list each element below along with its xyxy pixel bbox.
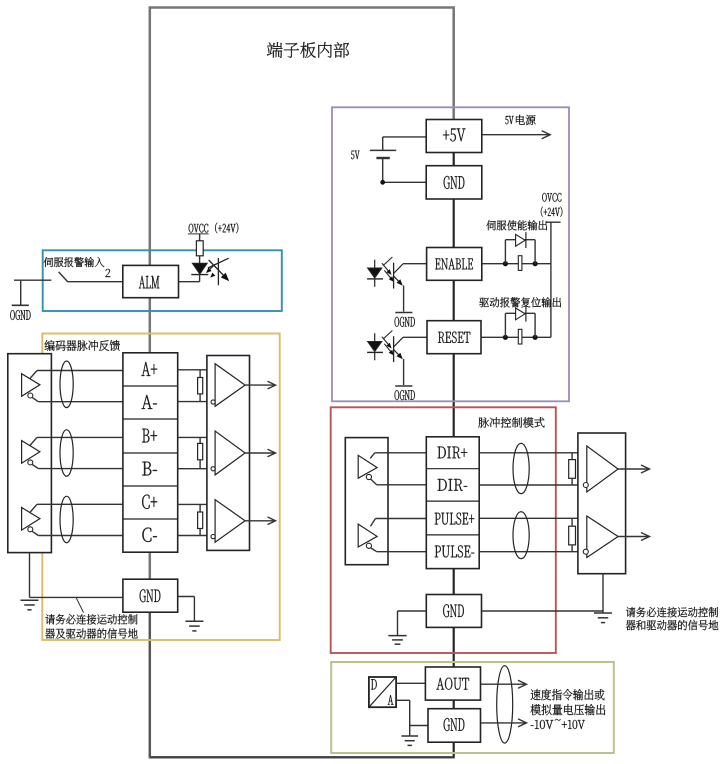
wire: phototransistor to ENABLE — [403, 263, 427, 265]
diode (RESET clamp) — [516, 308, 526, 320]
wire: PULSE- output line — [479, 551, 583, 553]
switch S1 blade (alarm input) — [59, 272, 68, 282]
resistor (DIR termination) — [571, 453, 573, 460]
wire: PULSE driver output arrow — [618, 536, 649, 538]
wire: B- to driver bubble — [178, 468, 211, 470]
DAC U5 D/A converter box — [369, 677, 396, 707]
node: label 速度指令输出或 — [531, 689, 605, 700]
node: junction dots RESET clamp — [503, 335, 508, 340]
op-amp U4B (PULSE driver) — [587, 516, 618, 558]
node: output driver box (pulse) — [578, 433, 626, 574]
resistor (PULSE termination) — [571, 518, 573, 526]
node: label 模拟量电压输出 — [531, 704, 606, 715]
wire: A+ to driver — [178, 369, 215, 371]
cable shield ellipse (DIR pair) — [513, 443, 529, 493]
ground OGND (RESET opto) — [395, 385, 412, 387]
battery BT1 5V — [370, 149, 396, 151]
inverter U6A (A receiver) — [22, 374, 40, 397]
wire: GND to ENABLE bus segment — [453, 199, 455, 248]
terminal AOUT box — [425, 667, 480, 700]
op-amp U4A (DIR driver) — [587, 446, 618, 492]
node: pin number 2 — [106, 269, 111, 277]
wire: RESET to OVCC line — [481, 336, 551, 338]
wire: +5V box to GND box bus segment — [453, 153, 455, 166]
node: label 脉冲控制模式 — [478, 417, 544, 427]
wire: ENABLE to RESET bus segment — [453, 280, 455, 320]
wire: B driver output arrow — [245, 452, 275, 454]
resistor (C termination) — [199, 504, 201, 512]
wire: GND to bottom frame bus segment — [453, 742, 455, 757]
wire: emitter to OGND — [403, 286, 405, 312]
LED D1 (alarm indicator) — [192, 263, 207, 274]
wire: DIR- output line — [479, 484, 583, 486]
wire: AOUT to GND bus segment — [453, 700, 455, 709]
op-amp U7B (B driver) — [215, 431, 245, 475]
wire: PULSE+ to receiver — [371, 519, 376, 527]
wire: C- to driver bubble — [178, 535, 211, 537]
wire: emitter to OGND (RESET) — [403, 359, 405, 385]
node: leader line to note — [76, 597, 84, 612]
inverter U3B (PULSE receiver) — [358, 524, 377, 547]
ground (encoder right) — [185, 620, 203, 622]
capacitor (RESET filter) — [518, 329, 522, 344]
node: label OVCC (+24V) right — [542, 193, 561, 202]
op-amp U7A (A driver) — [215, 364, 245, 407]
capacitor (ENABLE filter) — [518, 256, 522, 271]
ground (pulse GND left) — [388, 635, 406, 637]
optocoupler U1 LED (ENABLE) — [374, 260, 376, 268]
terminal GND box (encoder) — [123, 579, 178, 612]
resistor (A termination) — [199, 370, 201, 378]
node: label 驱动报警复位输出 — [479, 297, 561, 307]
cable shield ellipse (analog out) — [497, 666, 513, 743]
wire: PULSE+ output line — [479, 517, 587, 519]
node: label OGND — [10, 310, 30, 320]
inverter U6B (B receiver) — [22, 441, 40, 464]
terminal ENABLE box — [427, 248, 482, 281]
wire: C driver output arrow — [245, 520, 275, 522]
node: label 编码器脉冲反馈 — [45, 340, 120, 351]
wire: ENABLE clamp loop — [504, 240, 506, 264]
terminal +5V box — [426, 120, 482, 153]
wire: bottom frame darker overlay — [150, 756, 454, 758]
wire: B- line from bubble — [32, 465, 38, 469]
wire: driver box ground stem — [602, 574, 604, 613]
node: label OVCC (+24V) — [189, 224, 208, 233]
wire: switch to ALM box — [68, 281, 123, 283]
terminal GND box (analog) — [428, 709, 481, 743]
terminal block DIR+/DIR-/PULSE+/PULSE- — [426, 437, 479, 569]
wire: phototransistor to RESET — [403, 336, 427, 338]
terminal GND box (pulse section) — [426, 595, 481, 628]
node: label 5V电源 — [505, 116, 513, 124]
terminal block A+/A-/B+/B-/C+/C- — [123, 353, 178, 552]
node: label OGND (RESET opto) — [395, 390, 415, 400]
optocoupler U2 LED (RESET) — [374, 333, 376, 341]
wire: A- line from bubble — [32, 398, 38, 402]
node: junction dot battery-GND — [380, 180, 385, 185]
wire: ENABLE to OVCC line — [482, 263, 551, 265]
optocoupler U2 phototransistor (RESET) — [393, 336, 395, 362]
cable shield ellipse (A pair) — [60, 361, 73, 408]
optocoupler U1 phototransistor (ENABLE) — [393, 263, 395, 289]
wire: GND to AOUT bus segment — [453, 627, 455, 667]
node: title text 端子板内部 — [267, 42, 349, 58]
wire: alarm input stub — [14, 279, 51, 281]
wire: RESET to DIR+ bus segment — [453, 354, 455, 437]
terminal RESET box — [427, 321, 481, 354]
node: label 请务必连接运动控制器及驱动器的信号地 — [45, 614, 137, 624]
wire: DIR driver output arrow — [618, 468, 649, 470]
cable shield ellipse (PULSE pair) — [513, 512, 529, 559]
wire: analog GND output arrow — [481, 722, 527, 724]
wire: RESET clamp loop — [504, 313, 506, 337]
wire: A- to driver bubble — [178, 401, 211, 403]
node: encoder feedback section frame (orange) — [42, 334, 279, 641]
node: label OGND (ENABLE opto) — [395, 317, 415, 327]
node: encoder receiver box — [8, 354, 52, 553]
wire: battery - to GND — [382, 158, 384, 182]
wire: ALM to LED — [179, 281, 200, 283]
wire: DAC to AOUT — [396, 682, 425, 684]
resistor (B termination) — [199, 437, 201, 443]
node: servo alarm input section frame (cyan) — [43, 250, 282, 311]
resistor (alarm LED current limit) — [196, 241, 203, 256]
wire: signal ground rail to GND box — [30, 596, 123, 598]
node: junction dots ENABLE clamp — [503, 261, 508, 266]
terminal ALM box — [123, 265, 179, 297]
wire: GND to driver ground — [479, 610, 603, 612]
node: line receiver box (pulse inputs) — [345, 438, 388, 565]
wire: battery + to +5V box — [382, 137, 384, 151]
wire: DIR+ to receiver — [370, 453, 375, 459]
wire: terminal-board outer boundary rectangle 端子板内部 — [150, 8, 454, 758]
wire: DIR- to receiver bubble — [371, 479, 377, 485]
inverter U6C (C receiver) — [22, 508, 40, 531]
wire: receiver box ground stem — [29, 553, 31, 598]
node: encoder driver box — [207, 356, 250, 551]
wire: OVCC to resistor — [199, 234, 201, 241]
node: pulse control section frame (red) — [331, 407, 556, 653]
wire: OVCC feed vertical — [546, 221, 561, 223]
wire: A+ line to box — [30, 371, 37, 379]
node: label 5V (battery) — [351, 151, 360, 160]
ground (encoder left) — [21, 599, 39, 601]
wire: DIR+ output line — [479, 452, 587, 454]
diode (ENABLE clamp) — [516, 234, 526, 246]
wire: AOUT output arrow — [481, 683, 527, 685]
ground (pulse driver) — [594, 612, 612, 614]
wire: A driver output arrow — [245, 384, 275, 386]
wire: PULSE- to receiver bubble — [371, 548, 377, 552]
wire: resistor to LED — [199, 256, 201, 263]
optocoupler U1 light arrows (ENABLE) — [382, 263, 391, 273]
optocoupler U2 light arrows (RESET) — [382, 337, 391, 347]
node: label -10V~+10V — [531, 720, 554, 729]
wire: GND box to left ground — [398, 610, 427, 612]
wire: C- line from bubble — [32, 531, 38, 535]
terminal GND box (5V return) — [426, 166, 482, 199]
wire: GND box to right ground — [178, 596, 195, 598]
node: label 伺服使能输出 — [486, 220, 547, 230]
optocoupler photodetector (alarm) — [217, 258, 219, 285]
op-amp U7C (C driver) — [215, 500, 245, 543]
cable shield ellipse (B pair) — [60, 430, 73, 477]
wire: C+ line to box — [30, 504, 37, 512]
wire: C+ to driver — [178, 503, 215, 505]
wire: B+ line to box — [30, 437, 37, 445]
ground OGND (ENABLE opto) — [395, 312, 412, 314]
node: label 请务必连接运动控制器和驱动器的信号地 — [626, 607, 718, 617]
wire: PULSE- to GND bus segment — [453, 569, 455, 594]
ground (analog) — [401, 735, 418, 737]
wire: +5V output arrow 5V电源 — [482, 134, 550, 136]
inverter U3A (DIR receiver) — [358, 455, 377, 478]
node: analog output section frame (green) — [331, 662, 614, 753]
node: label 伺服报警输入 — [44, 257, 105, 267]
wire: B+ to driver — [178, 436, 215, 438]
ground OGND (alarm input) — [20, 280, 22, 305]
cable shield ellipse (C pair) — [60, 496, 73, 543]
wire: DAC analog ground — [396, 699, 410, 701]
node: power/control section frame (purple) — [332, 107, 569, 401]
